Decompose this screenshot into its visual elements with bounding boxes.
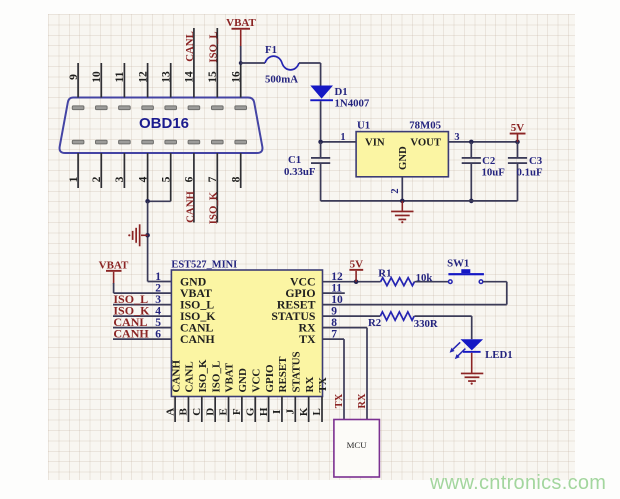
svg-text:4: 4 — [137, 176, 149, 182]
svg-text:8: 8 — [231, 176, 243, 182]
svg-text:C3: C3 — [529, 155, 543, 167]
svg-text:I: I — [271, 410, 283, 414]
svg-text:12: 12 — [137, 71, 149, 83]
svg-text:16: 16 — [231, 71, 243, 83]
svg-text:CANL: CANL — [184, 31, 196, 62]
svg-text:VOUT: VOUT — [410, 136, 441, 148]
svg-text:VBAT: VBAT — [226, 17, 256, 29]
svg-text:2: 2 — [390, 188, 401, 193]
svg-text:ISO_L: ISO_L — [210, 361, 222, 393]
svg-text:F1: F1 — [265, 44, 277, 56]
svg-text:H: H — [258, 407, 270, 416]
svg-text:6: 6 — [184, 176, 196, 182]
svg-text:1: 1 — [155, 271, 161, 283]
svg-text:C2: C2 — [482, 155, 495, 167]
svg-text:500mA: 500mA — [265, 73, 298, 85]
svg-text:R2: R2 — [368, 317, 381, 329]
svg-text:11: 11 — [114, 71, 126, 82]
svg-text:CANL: CANL — [184, 361, 196, 392]
svg-text:13: 13 — [161, 71, 173, 83]
svg-text:TX: TX — [334, 393, 345, 408]
svg-text:VBAT: VBAT — [224, 362, 236, 392]
svg-text:MCU: MCU — [347, 440, 368, 450]
svg-text:LED1: LED1 — [485, 349, 513, 361]
svg-text:1: 1 — [68, 176, 80, 182]
svg-text:U1: U1 — [357, 119, 370, 131]
svg-text:0.33uF: 0.33uF — [284, 166, 316, 178]
svg-text:15: 15 — [207, 71, 219, 83]
svg-text:VIN: VIN — [365, 136, 385, 148]
svg-text:F: F — [231, 408, 243, 415]
svg-text:SW1: SW1 — [447, 258, 469, 270]
svg-text:CANH: CANH — [113, 327, 149, 341]
svg-text:ISO_L: ISO_L — [207, 31, 219, 62]
svg-text:VBAT: VBAT — [99, 260, 129, 272]
svg-text:GND: GND — [237, 368, 249, 393]
svg-text:RESET: RESET — [277, 356, 289, 393]
svg-text:0.1uF: 0.1uF — [517, 166, 544, 178]
svg-text:7: 7 — [207, 176, 219, 182]
svg-text:CANH: CANH — [180, 332, 215, 346]
svg-text:78M05: 78M05 — [409, 119, 441, 131]
svg-text:3: 3 — [114, 176, 126, 182]
svg-text:A: A — [164, 408, 176, 416]
svg-text:K: K — [298, 407, 310, 416]
svg-text:OBD16: OBD16 — [139, 115, 189, 132]
svg-text:CANH: CANH — [185, 191, 197, 223]
svg-text:10uF: 10uF — [482, 166, 506, 178]
svg-text:RX: RX — [357, 393, 368, 409]
svg-text:C: C — [191, 408, 203, 416]
svg-text:TX: TX — [299, 332, 316, 346]
svg-text:D: D — [204, 408, 216, 416]
svg-text:TX: TX — [317, 377, 329, 392]
svg-text:14: 14 — [184, 71, 196, 83]
svg-text:G: G — [244, 407, 256, 416]
svg-text:D1: D1 — [335, 86, 348, 98]
svg-text:1: 1 — [340, 132, 345, 143]
svg-text:330R: 330R — [414, 318, 438, 330]
svg-text:5V: 5V — [350, 259, 364, 271]
svg-text:3: 3 — [454, 132, 459, 143]
svg-text:2: 2 — [91, 176, 103, 182]
svg-text:1N4007: 1N4007 — [335, 98, 370, 110]
svg-text:STATUS: STATUS — [290, 351, 302, 392]
svg-text:9: 9 — [68, 74, 80, 80]
svg-text:EST527_MINI: EST527_MINI — [171, 260, 237, 271]
svg-text:GND: GND — [397, 146, 409, 170]
svg-text:VCC: VCC — [250, 369, 262, 393]
svg-text:ISO_K: ISO_K — [207, 191, 219, 224]
svg-text:CANH: CANH — [170, 360, 182, 393]
svg-text:L: L — [311, 408, 323, 415]
svg-text:5: 5 — [161, 176, 173, 182]
svg-text:10: 10 — [91, 71, 103, 83]
svg-text:C1: C1 — [288, 154, 301, 166]
svg-text:E: E — [218, 408, 230, 415]
svg-text:5V: 5V — [511, 122, 525, 134]
svg-text:ISO_K: ISO_K — [197, 359, 209, 392]
svg-text:R1: R1 — [378, 267, 391, 279]
svg-text:RX: RX — [304, 377, 316, 393]
svg-text:GPIO: GPIO — [264, 364, 276, 393]
svg-text:J: J — [284, 409, 296, 415]
svg-text:B: B — [178, 407, 190, 415]
